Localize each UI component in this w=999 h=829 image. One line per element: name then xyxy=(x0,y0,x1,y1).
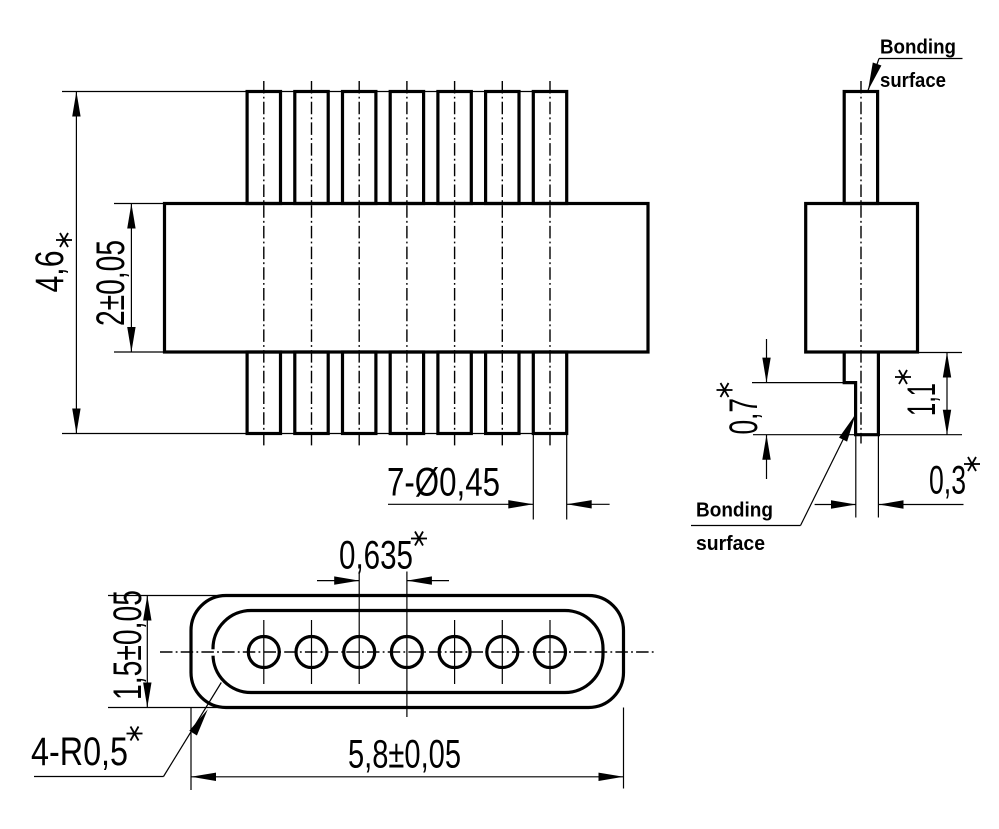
hole 7 xyxy=(535,637,566,668)
top pin 4 xyxy=(390,92,423,204)
svg-text:1,1: 1,1 xyxy=(900,383,944,416)
dimension 5.8±0.05 xyxy=(191,708,624,791)
svg-text:4,6: 4,6 xyxy=(28,251,72,293)
hole 6 xyxy=(487,637,518,668)
hole 3 xyxy=(344,637,375,668)
svg-text:0,3: 0,3 xyxy=(929,459,966,503)
bottom pin 1 xyxy=(247,352,280,434)
star of 4.6 xyxy=(56,233,72,247)
svg-text:2±0,05: 2±0,05 xyxy=(89,240,133,326)
svg-text:0,635: 0,635 xyxy=(339,534,413,578)
svg-text:7-Ø0,45: 7-Ø0,45 xyxy=(387,461,500,505)
top pin 2 xyxy=(295,92,328,204)
side view top pin xyxy=(844,92,877,204)
bottom view horizontal centerline xyxy=(160,651,656,653)
dimension 4.6 xyxy=(28,92,81,434)
star of 1.1 xyxy=(895,370,911,384)
dimension 7-Ø0.45 xyxy=(387,434,610,520)
top pin 7 xyxy=(533,92,566,204)
bottom pin 3 xyxy=(343,352,376,434)
front view bottom extension line (4.6 lower) xyxy=(62,433,567,435)
dimension 0.3 xyxy=(815,435,966,518)
front view body xyxy=(165,204,649,353)
star of 0.635 xyxy=(411,532,427,546)
top pin 3 xyxy=(343,92,376,204)
side view centerline xyxy=(860,81,862,444)
svg-text:0,7: 0,7 xyxy=(722,398,766,435)
bottom pin 7 xyxy=(533,352,566,434)
star of 0.3 xyxy=(964,457,980,471)
hole vertical lines xyxy=(264,572,550,718)
bottom view outer shell xyxy=(191,596,624,708)
side view bottom pin with bonding step xyxy=(844,352,878,435)
top pin 5 xyxy=(438,92,471,204)
svg-text:Bonding: Bonding xyxy=(880,37,956,59)
side view body xyxy=(806,204,918,353)
dimension 1.5±0.05 xyxy=(106,590,230,708)
hole 2 xyxy=(296,637,327,668)
svg-text:surface: surface xyxy=(696,533,765,555)
dimension 1.1 xyxy=(753,353,962,435)
pin centerlines front view xyxy=(264,81,550,447)
star of 4-R0.5 xyxy=(127,727,143,741)
dimension 0.7 xyxy=(722,339,844,479)
top pin 6 xyxy=(486,92,519,204)
top pin 1 xyxy=(247,92,280,204)
bottom pin 6 xyxy=(486,352,519,434)
bottom pin 5 xyxy=(438,352,471,434)
dimension 0.635 xyxy=(317,534,449,585)
bottom pin 2 xyxy=(295,352,328,434)
star of 0.7 xyxy=(717,383,733,397)
bottom pin 4 xyxy=(390,352,423,434)
bonding surface label bottom xyxy=(691,415,856,556)
bonding surface label top xyxy=(868,37,963,93)
bottom view inner shell xyxy=(206,611,603,693)
svg-text:Bonding: Bonding xyxy=(696,500,773,522)
hole 5 xyxy=(439,637,470,668)
label 4-R0.5 with leader xyxy=(31,683,221,777)
hole 1 xyxy=(248,637,279,668)
front view top extension line (4.6 upper) xyxy=(62,91,567,93)
svg-text:1,5±0,05: 1,5±0,05 xyxy=(106,590,150,700)
svg-text:4-R0,5: 4-R0,5 xyxy=(31,730,128,774)
dimension 2±0.05 xyxy=(89,204,165,353)
svg-text:5,8±0,05: 5,8±0,05 xyxy=(348,733,461,777)
svg-text:surface: surface xyxy=(880,70,946,92)
hole 4 xyxy=(391,637,422,668)
